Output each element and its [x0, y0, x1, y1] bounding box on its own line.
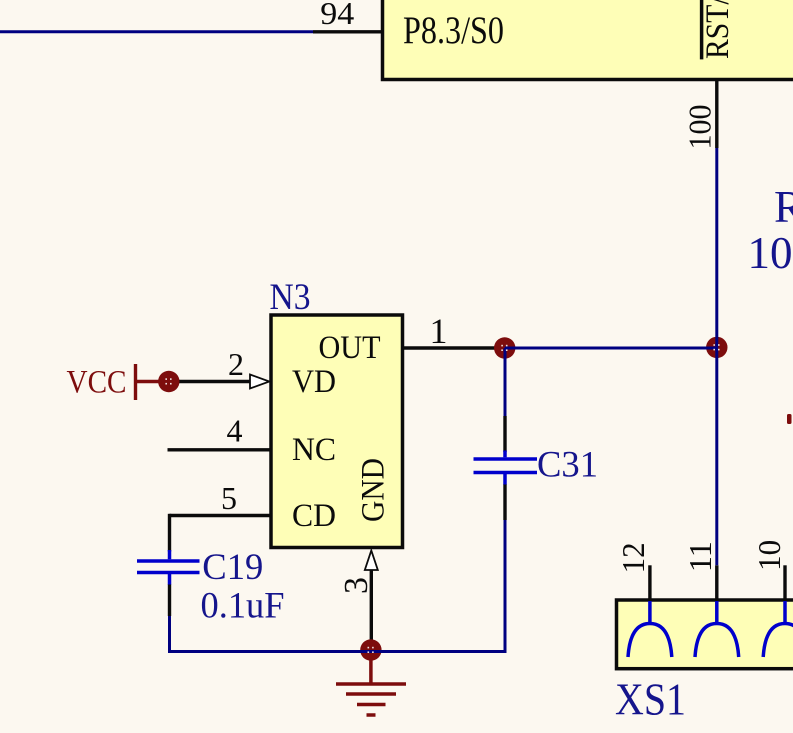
XS1 pin 11 socket arc	[695, 601, 739, 657]
svg-text:5: 5	[221, 480, 237, 516]
svg-text:C31: C31	[537, 445, 598, 486]
pin 2 of N3	[170, 380, 251, 383]
svg-text:VD: VD	[292, 364, 336, 400]
svg-text:GND: GND	[356, 458, 392, 522]
wire pin5 corner down to C19 (pin segment)	[168, 514, 171, 552]
pin 10 of XS1	[783, 565, 786, 600]
svg-text:94: 94	[320, 0, 354, 31]
capacitor C19 graphic	[137, 550, 200, 585]
svg-text:N3: N3	[270, 277, 311, 318]
pin 1 of N3	[403, 346, 504, 349]
pin 3 of N3	[370, 570, 373, 641]
svg-text:3: 3	[338, 577, 375, 594]
pin 5 of N3	[170, 514, 272, 517]
IC U1 body (top, partially visible)	[383, 0, 793, 80]
svg-text:100: 100	[682, 105, 718, 150]
node junction VCC/pin2	[158, 371, 179, 392]
connector XS1 body	[617, 600, 793, 669]
capacitor C31 upper pin	[503, 416, 506, 452]
wire RST net vertical	[715, 148, 718, 565]
svg-text:R: R	[774, 182, 793, 232]
wire C19 to gnd rail	[168, 616, 171, 653]
VCC power symbol	[134, 364, 137, 400]
svg-text:RST/N: RST/N	[699, 0, 736, 59]
junction speckles	[165, 344, 719, 653]
wire ground rail	[168, 650, 507, 653]
pin 94 of U1	[313, 30, 382, 33]
svg-text:10K: 10K	[748, 228, 793, 278]
svg-text:0.1uF: 0.1uF	[201, 586, 285, 627]
XS1 pin 10 socket arc	[763, 601, 793, 657]
svg-text:VCC: VCC	[67, 365, 127, 401]
wire to pin 94	[0, 30, 313, 33]
wire C31 to gnd rail	[504, 520, 507, 652]
capacitor C31 graphic	[474, 451, 538, 485]
pin 11 of XS1	[715, 565, 718, 600]
svg-text:12: 12	[615, 542, 651, 573]
svg-text:4: 4	[227, 413, 243, 449]
pin 4 of N3	[168, 448, 272, 451]
svg-text:P8.3/S0: P8.3/S0	[403, 9, 504, 52]
svg-text:11: 11	[682, 541, 718, 572]
pin 12 of XS1	[648, 565, 651, 600]
pin 2 input triangle	[250, 375, 269, 389]
svg-text:CD: CD	[292, 498, 336, 534]
svg-text:2: 2	[228, 346, 244, 382]
pin 100 of U1	[715, 80, 718, 149]
svg-text:10: 10	[751, 540, 787, 571]
capacitor C31 lower pin	[503, 484, 506, 520]
svg-text:C19: C19	[202, 547, 263, 588]
power bar tip (cut off at right edge)	[787, 414, 792, 424]
node junction ground	[360, 639, 381, 660]
svg-text:OUT: OUT	[319, 330, 381, 366]
wire junction down to C31	[504, 348, 507, 416]
svg-text:XS1: XS1	[615, 675, 686, 725]
pin 3 input triangle	[365, 551, 378, 571]
svg-text:NC: NC	[292, 432, 336, 468]
node junction pin1/C31	[494, 337, 515, 358]
svg-text:1: 1	[430, 311, 448, 351]
wire pin1 junction to RST net	[505, 347, 717, 350]
node junction RST net	[706, 337, 727, 358]
ground symbol	[336, 650, 406, 715]
capacitor C19 lower pin	[168, 584, 171, 616]
overline of RST pin name	[700, 0, 704, 59]
op-amp/supervisor N3 body	[271, 315, 403, 548]
XS1 pin 12 socket arc	[628, 601, 672, 657]
